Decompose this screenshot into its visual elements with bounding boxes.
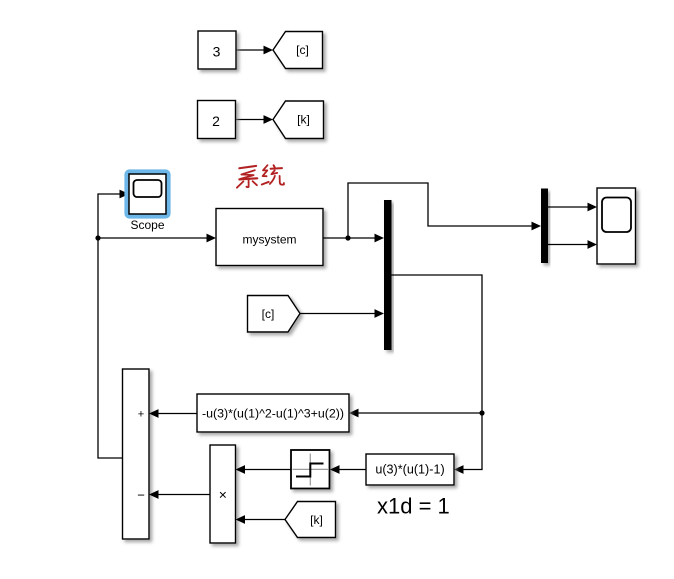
wire demux output 1 to scope2 — [548, 203, 597, 212]
svg-text:[k]: [k] — [297, 113, 310, 127]
junction node at scope branch — [95, 235, 100, 240]
from block [c] — [248, 296, 301, 333]
scope block 2 — [597, 188, 636, 264]
svg-text:+: + — [138, 409, 144, 421]
from block [k] — [285, 502, 336, 538]
svg-text:-u(3)*(u(1)^2-u(1)^3+u(2)): -u(3)*(u(1)^2-u(1)^3+u(2)) — [202, 407, 344, 421]
mux block (vertical bar) — [384, 200, 392, 350]
svg-text:3: 3 — [213, 43, 221, 59]
svg-text:[k]: [k] — [310, 513, 323, 527]
svg-text:mysystem: mysystem — [243, 232, 297, 246]
wire branch to mysystem input — [98, 234, 216, 243]
svg-text:[c]: [c] — [296, 43, 309, 57]
wire branch from mysystem junction to demux — [348, 183, 541, 238]
demux block (vertical bar) — [541, 189, 548, 264]
scope selection highlight — [127, 172, 168, 216]
wire from [k] to product input 2 — [236, 515, 286, 524]
wire demux output 2 to scope2 — [548, 240, 597, 249]
saturation block — [291, 450, 330, 489]
wire mux output down to Fcn blocks — [392, 275, 483, 413]
subsystem block mysystem — [216, 209, 323, 266]
constant block "2" — [198, 101, 236, 139]
wire from Constant 2 to Goto [k] — [236, 115, 274, 124]
svg-text:−: − — [137, 488, 145, 503]
feedback wire: sum output up to Scope and mysystem — [98, 190, 129, 458]
Fcn block 2 — [366, 454, 454, 485]
wire Fcn2 output to saturation input — [330, 465, 366, 474]
wire saturation output to product input 1 — [236, 465, 292, 474]
svg-text:2: 2 — [212, 113, 220, 129]
svg-text:u(3)*(u(1)-1): u(3)*(u(1)-1) — [375, 463, 444, 477]
junction node after mysystem — [345, 235, 350, 240]
title text 系统 (red, drawn strokes) — [237, 165, 284, 188]
Fcn block 1 — [197, 394, 349, 432]
svg-text:[c]: [c] — [262, 307, 275, 321]
wire product output to sum - input — [149, 490, 210, 499]
wire from [c] to mux — [300, 309, 384, 318]
sum block (flipped, + and - inputs on right) — [123, 369, 150, 539]
junction node on feedback column — [479, 410, 484, 415]
wire junction to Fcn1 input — [349, 409, 482, 418]
constant block "3" — [198, 31, 236, 69]
wire Fcn1 output to sum + input — [149, 409, 197, 418]
goto block [k] — [273, 101, 324, 139]
wire mysystem output to mux — [323, 234, 384, 243]
goto block [c] — [273, 32, 323, 69]
svg-text:Scope: Scope — [130, 218, 164, 232]
svg-text:×: × — [219, 487, 227, 503]
svg-text:x1d = 1: x1d = 1 — [377, 494, 450, 519]
wire from Constant 3 to Goto [c] — [236, 46, 273, 55]
wire junction down to Fcn2 input — [454, 413, 482, 474]
scope block (selected) — [129, 174, 166, 214]
product block — [210, 445, 236, 543]
